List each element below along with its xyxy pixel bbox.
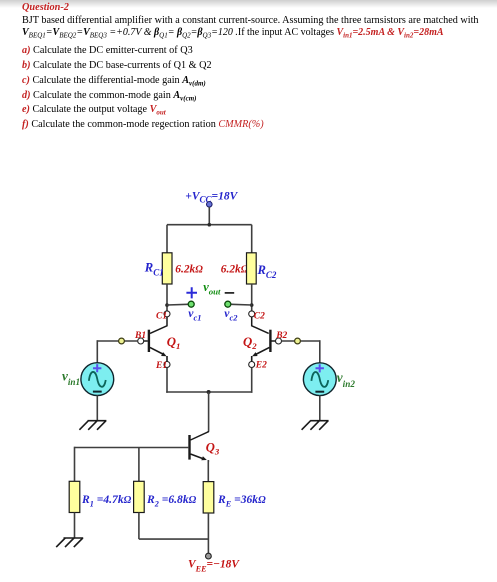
label vc1 bbox=[188, 307, 201, 323]
wire rail to RC1 bbox=[166, 225, 168, 253]
ground (vin1) bbox=[79, 421, 106, 430]
wire VCC to rail bbox=[208, 207, 210, 225]
junction top rail bbox=[208, 223, 212, 227]
svg-text:vin1: vin1 bbox=[62, 368, 80, 387]
node VEE (dot) bbox=[206, 553, 212, 559]
transistor Q1 bbox=[144, 317, 167, 362]
probe dot vc1 (green) bbox=[188, 301, 194, 307]
resistor R1 bbox=[69, 481, 80, 512]
wire stub to probe vc1 bbox=[167, 303, 188, 306]
wire vin2 top bbox=[319, 340, 321, 363]
label Q3 bbox=[206, 440, 220, 456]
value 6.2k ohm (left) bbox=[175, 264, 203, 276]
node VCC (dot) bbox=[207, 202, 213, 208]
svg-text:C1: C1 bbox=[156, 312, 167, 322]
value 6.2k ohm (right) bbox=[221, 264, 249, 276]
label R1 value bbox=[81, 493, 132, 509]
problem statement line 1 bbox=[22, 15, 479, 26]
svg-text:E2: E2 bbox=[255, 361, 267, 371]
svg-text:R1 =4.7kΩ: R1 =4.7kΩ bbox=[81, 493, 132, 509]
wire Q3 emitter to RE bbox=[207, 460, 209, 482]
resistor RC1 bbox=[162, 253, 172, 284]
wire R1 to ground bbox=[74, 513, 76, 539]
svg-text:B1: B1 bbox=[134, 331, 146, 341]
junction emitter rail bbox=[207, 390, 211, 394]
label Q2 bbox=[243, 335, 257, 351]
wire RE to VEE bbox=[207, 513, 209, 553]
wire R2 bottom bbox=[138, 513, 140, 540]
net dot B1 wire (yellow) bbox=[119, 338, 125, 344]
wire E2 down bbox=[251, 368, 253, 393]
svg-text:R2 =6.8kΩ: R2 =6.8kΩ bbox=[146, 493, 197, 509]
junction node vc1 bbox=[165, 303, 169, 307]
svg-text:Q3: Q3 bbox=[206, 440, 220, 456]
label R2 value bbox=[146, 493, 197, 509]
source vin1 bbox=[81, 363, 114, 396]
wire bottom rail bbox=[139, 538, 209, 540]
wire stub to probe vc2 bbox=[231, 303, 252, 306]
svg-text:6.2kΩ: 6.2kΩ bbox=[221, 264, 249, 276]
label RE value bbox=[217, 493, 266, 509]
wire Q3 base bbox=[75, 447, 190, 449]
item d bbox=[22, 90, 197, 101]
label RC2 bbox=[257, 263, 277, 280]
title Question-2 bbox=[22, 2, 69, 13]
svg-text:RC1: RC1 bbox=[144, 261, 164, 278]
svg-text:Q2: Q2 bbox=[243, 335, 257, 351]
wire vin2 to ground bbox=[319, 396, 321, 421]
label vc2 bbox=[224, 307, 238, 323]
label C1 bbox=[156, 312, 167, 322]
label C2 bbox=[254, 312, 265, 322]
svg-text:E1: E1 bbox=[155, 361, 167, 371]
junction node vc2 bbox=[250, 303, 254, 307]
wire B2 to vin2 bbox=[282, 340, 320, 342]
label E1 bbox=[155, 361, 167, 371]
wire top rail bbox=[167, 224, 252, 226]
label vin1 bbox=[62, 368, 80, 387]
svg-text:RE =36kΩ: RE =36kΩ bbox=[217, 493, 266, 509]
svg-text:RC2: RC2 bbox=[257, 263, 277, 280]
source vin2 bbox=[303, 363, 336, 396]
resistor R2 bbox=[134, 481, 145, 512]
svg-text:vc2: vc2 bbox=[224, 307, 238, 323]
wire emitter rail bbox=[166, 391, 252, 393]
plus sign (output) bbox=[186, 287, 197, 298]
net dot B2 wire (yellow) bbox=[295, 338, 301, 344]
label vin2 bbox=[337, 370, 356, 389]
svg-text:vout: vout bbox=[203, 280, 221, 296]
probe dot vc2 (green) bbox=[225, 301, 231, 307]
terminal B1 bbox=[138, 338, 144, 344]
minus sign (output) bbox=[225, 292, 235, 294]
item a bbox=[22, 45, 193, 56]
wire vin1 to ground bbox=[96, 395, 98, 420]
label RC1 bbox=[144, 261, 164, 278]
transistor Q3 bbox=[190, 431, 209, 462]
wire RC1 to C1 bbox=[166, 284, 168, 311]
svg-text:VEE=−18V: VEE=−18V bbox=[188, 559, 240, 574]
label VEE bbox=[188, 559, 240, 574]
label E2 bbox=[255, 361, 267, 371]
label B2 bbox=[275, 331, 287, 341]
wire vin1 top bbox=[96, 340, 98, 363]
label Q1 bbox=[167, 335, 181, 351]
svg-text:vin2: vin2 bbox=[337, 370, 356, 389]
terminal B2 bbox=[276, 338, 282, 344]
wire rail to RC2 bbox=[251, 225, 253, 253]
item f bbox=[22, 119, 264, 130]
svg-text:Q1: Q1 bbox=[167, 335, 181, 351]
label B1 bbox=[134, 331, 146, 341]
ground (vin2) bbox=[302, 421, 329, 430]
resistor RE bbox=[203, 482, 214, 513]
transistor Q2 bbox=[252, 317, 276, 362]
item b bbox=[22, 60, 212, 71]
wire rail to Q3 collector bbox=[208, 392, 210, 432]
terminal C2 bbox=[249, 311, 255, 317]
wire E1 down bbox=[166, 368, 168, 393]
wire R2 top bbox=[138, 448, 140, 482]
resistor RC2 bbox=[247, 253, 257, 284]
item c bbox=[22, 75, 206, 86]
ground (R1) bbox=[56, 538, 83, 547]
wire vin1 to B1 bbox=[97, 340, 137, 342]
wire base corner to R1 bbox=[74, 447, 76, 482]
terminal E1 bbox=[164, 362, 170, 368]
item e bbox=[22, 104, 166, 115]
wire RC2 to C2 bbox=[251, 284, 253, 311]
svg-text:vc1: vc1 bbox=[188, 307, 201, 323]
label +VCC=18V bbox=[185, 191, 238, 205]
svg-text:C2: C2 bbox=[254, 312, 265, 322]
problem statement line 2 (formula) bbox=[22, 27, 444, 38]
svg-text:6.2kΩ: 6.2kΩ bbox=[175, 264, 203, 276]
terminal C1 bbox=[164, 311, 170, 317]
svg-text:B2: B2 bbox=[275, 331, 287, 341]
terminal E2 bbox=[249, 362, 255, 368]
label vout bbox=[203, 280, 221, 296]
